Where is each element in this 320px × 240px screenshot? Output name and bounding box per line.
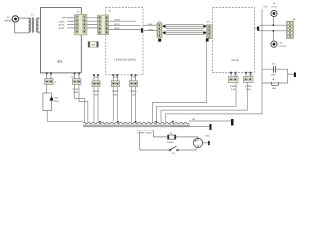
svg-text:TB+: TB+ [192, 118, 197, 121]
terminal J13 below U2 [130, 74, 138, 121]
wire J8 pin2 to ground bus [79, 84, 88, 121]
wire AOL [143, 24, 157, 26]
terminal J14 below U3 [229, 72, 239, 91]
wire T1 secondary bottom to U1 [38, 32, 41, 34]
wire filter return to bus [166, 83, 263, 122]
connector J8 output header [287, 18, 296, 39]
svg-text:10uF: 10uF [272, 87, 277, 90]
svg-text:1.5uF: 1.5uF [271, 74, 277, 77]
node BCLK wire inside U2 [108, 24, 140, 26]
connector J7 R output jack [271, 41, 287, 48]
svg-text:TDA1543 (DAC): TDA1543 (DAC) [114, 58, 136, 62]
wire fuse to battery [176, 137, 198, 138]
connector J8 pin boxes [287, 22, 293, 38]
wire filter tap to ground bar [288, 73, 294, 75]
svg-text:1-PWR 2-GND: 1-PWR 2-GND [137, 131, 152, 134]
wire to TB- bar [170, 126, 210, 128]
fuse F1 [167, 132, 176, 144]
switch S1 [140, 131, 196, 155]
pin output black bar [257, 27, 259, 31]
svg-text:PWRB: PWRB [245, 85, 252, 88]
capacitor C9 output filter loop [262, 63, 288, 83]
svg-text:AOR: AOR [148, 28, 153, 31]
wire +V rail down to cap filter [261, 9, 263, 69]
wire J1 shield loop to T1 primary bottom [15, 22, 30, 33]
svg-text:L-OUT: L-OUT [271, 5, 278, 8]
svg-text:IC1: IC1 [57, 59, 62, 63]
wire shielded cable L [163, 24, 207, 28]
battery BT1 power source [193, 134, 210, 147]
diode D1 LED power indicator [43, 84, 83, 121]
wire shielded cable R [163, 31, 207, 35]
svg-text:VCC: VCC [205, 134, 210, 137]
svg-text:SDAT: SDAT [114, 27, 120, 30]
connector J4 pin boxes [158, 24, 162, 37]
wire J13 return to bus [161, 83, 247, 122]
svg-text:SDAT: SDAT [59, 27, 65, 30]
pin TB+ black bar [231, 119, 234, 126]
wire AOR [143, 30, 157, 32]
svg-text:6.3V: 6.3V [231, 88, 236, 91]
node SDATA wire inside U2 [108, 29, 140, 31]
svg-text:BCLK: BCLK [114, 23, 120, 26]
connector J6 L output jack [271, 2, 278, 16]
connector J5 pin boxes [207, 26, 211, 39]
wire U3 output to bar [254, 27, 257, 29]
pin ground bar right [294, 73, 296, 78]
connector J5 cable header right [206, 21, 212, 42]
connector J2 pin boxes [76, 16, 86, 33]
svg-text:R-OUT: R-OUT [280, 45, 288, 48]
node LRCK wire inside U2 [108, 20, 136, 22]
pin TB- black bar [210, 124, 212, 130]
svg-text:PWRC: PWRC [72, 88, 79, 91]
connector J1 SPDIF input jack [4, 16, 18, 23]
svg-text:0.5mAT: 0.5mAT [167, 141, 175, 144]
svg-text:150V: 150V [246, 88, 252, 91]
IC U3 output stage block [212, 7, 254, 72]
wire R out [259, 30, 286, 32]
svg-text:6DJ8: 6DJ8 [231, 59, 238, 62]
wire J5 ground down [206, 42, 208, 103]
connector J2 I2S header [75, 10, 87, 35]
resistor R1 termination [88, 42, 98, 48]
svg-text:AOL: AOL [148, 23, 153, 26]
terminal J12 below U2 [111, 74, 119, 121]
wire L out [259, 24, 286, 26]
IC U1 SPDIF receiver block [40, 8, 81, 73]
pin AOUT black bar on U2 edge [141, 28, 143, 32]
node BCLK wire to J2 [67, 24, 75, 26]
wire to R jack [272, 31, 274, 41]
node PWR terminal label [137, 129, 153, 131]
svg-text:LED: LED [54, 97, 59, 100]
wire J5 ground return to bus [153, 103, 207, 122]
wire to L jack [272, 17, 274, 25]
wire J12 return to bus [157, 83, 237, 122]
terminal J10 below U1 power [71, 72, 81, 94]
wire T1 secondary top to U1 [38, 17, 41, 19]
node SDATA wire to J2 [67, 27, 75, 29]
node LRCK wire to J2 [67, 20, 75, 22]
capacitor C10 electrolytic cup [271, 79, 278, 91]
ground bus bar [83, 121, 190, 127]
connector J3 pin boxes [98, 16, 107, 33]
terminal J15 below U3 [244, 72, 254, 91]
wire to fuse [153, 131, 168, 137]
wire J1 to T1 primary top [19, 17, 29, 19]
wire J8 pin1 to ground bus [75, 84, 85, 121]
svg-text:SPDIF: SPDIF [4, 19, 12, 22]
connector J3 I2S header [98, 9, 112, 34]
svg-text:5CM: 5CM [54, 100, 59, 103]
svg-text:LRCK: LRCK [114, 19, 120, 22]
wire I2S lines J2 to J3 [87, 18, 98, 28]
svg-text:BCLK: BCLK [59, 24, 65, 27]
svg-text:NGR: NGR [73, 91, 78, 94]
svg-text:+5V: +5V [263, 6, 268, 9]
terminal J11 below U2 [92, 74, 100, 121]
IC U2 TDA1543 DAC board block [106, 8, 143, 75]
wire bus to TB+ bar [189, 120, 231, 122]
terminal J9 below U1 [45, 72, 58, 84]
connector J4 cable header left [157, 21, 162, 42]
node MCK wire to J2 [62, 17, 76, 19]
svg-text:LRCK: LRCK [59, 20, 65, 23]
transformer T1 [29, 14, 38, 33]
